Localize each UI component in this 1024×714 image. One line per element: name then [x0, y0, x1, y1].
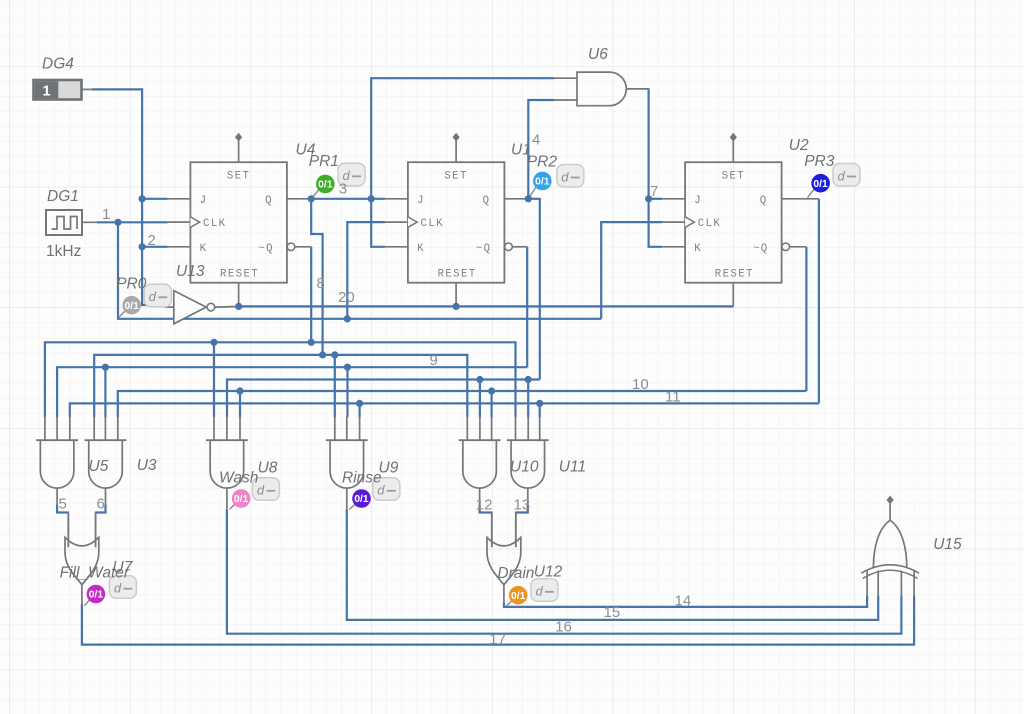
svg-text:RESET: RESET [715, 268, 754, 280]
svg-text:SET: SET [722, 170, 745, 182]
svg-text:15: 15 [604, 604, 621, 621]
svg-text:U12: U12 [534, 564, 563, 581]
svg-text:DG1: DG1 [47, 188, 79, 205]
svg-text:13: 13 [514, 497, 531, 514]
svg-text:8: 8 [317, 275, 325, 292]
svg-text:0/1: 0/1 [813, 179, 828, 190]
svg-text:K: K [417, 243, 425, 255]
svg-text:0/1: 0/1 [125, 301, 140, 312]
svg-text:J: J [694, 195, 702, 207]
svg-text:U8: U8 [258, 459, 278, 476]
svg-text:0/1: 0/1 [535, 177, 550, 188]
svg-text:5: 5 [59, 496, 67, 513]
svg-text:Q: Q [265, 195, 273, 207]
svg-text:K: K [200, 243, 208, 255]
svg-text:U15: U15 [933, 536, 962, 553]
svg-text:U2: U2 [789, 137, 809, 154]
svg-text:~Q: ~Q [753, 243, 769, 255]
svg-text:J: J [417, 195, 425, 207]
svg-text:RESET: RESET [438, 268, 477, 280]
svg-text:1kHz: 1kHz [46, 243, 81, 260]
svg-text:DG4: DG4 [42, 56, 74, 73]
svg-text:U6: U6 [588, 46, 608, 63]
svg-text:CLK: CLK [203, 218, 226, 230]
svg-text:0/1: 0/1 [318, 180, 333, 191]
svg-text:2: 2 [148, 232, 156, 249]
svg-text:17: 17 [489, 631, 506, 648]
svg-text:0/1: 0/1 [234, 494, 249, 505]
svg-text:1: 1 [42, 84, 50, 100]
svg-text:U7: U7 [113, 559, 134, 576]
svg-text:U13: U13 [176, 263, 205, 280]
svg-text:Q: Q [483, 195, 491, 207]
svg-text:20: 20 [338, 289, 355, 306]
svg-text:U3: U3 [137, 457, 157, 474]
svg-text:Rinse: Rinse [342, 469, 382, 486]
svg-text:0/1: 0/1 [89, 590, 104, 601]
svg-text:U11: U11 [559, 458, 586, 475]
svg-text:PR0: PR0 [116, 275, 147, 292]
svg-text:U5: U5 [89, 458, 109, 475]
svg-text:d: d [561, 169, 569, 184]
svg-text:Wash: Wash [219, 469, 258, 486]
svg-text:14: 14 [675, 593, 692, 610]
svg-text:~Q: ~Q [476, 243, 492, 255]
svg-text:11: 11 [665, 388, 681, 405]
svg-text:12: 12 [476, 497, 493, 514]
svg-text:U10: U10 [510, 458, 539, 475]
svg-text:J: J [200, 195, 208, 207]
svg-text:K: K [694, 243, 702, 255]
svg-text:1: 1 [102, 206, 110, 223]
svg-text:~Q: ~Q [258, 243, 274, 255]
svg-text:CLK: CLK [421, 218, 444, 230]
svg-text:0/1: 0/1 [354, 494, 369, 505]
svg-text:Q: Q [760, 195, 768, 207]
svg-text:7: 7 [650, 183, 658, 200]
svg-text:SET: SET [444, 170, 467, 182]
svg-text:SET: SET [227, 170, 250, 182]
svg-text:PR1: PR1 [309, 153, 339, 170]
svg-text:RESET: RESET [220, 268, 259, 280]
svg-text:d: d [838, 168, 846, 183]
svg-text:10: 10 [632, 376, 649, 393]
svg-text:6: 6 [97, 496, 105, 513]
svg-text:4: 4 [532, 132, 540, 149]
svg-text:PR3: PR3 [804, 153, 835, 170]
svg-text:0/1: 0/1 [511, 591, 526, 602]
svg-text:d: d [114, 581, 122, 596]
svg-text:CLK: CLK [698, 218, 721, 230]
svg-text:PR2: PR2 [527, 154, 558, 171]
svg-text:d: d [149, 289, 157, 304]
svg-text:3: 3 [339, 181, 347, 198]
svg-text:16: 16 [555, 618, 572, 635]
svg-text:Drain: Drain [497, 565, 534, 582]
svg-text:d: d [536, 584, 544, 599]
svg-text:9: 9 [430, 352, 438, 369]
